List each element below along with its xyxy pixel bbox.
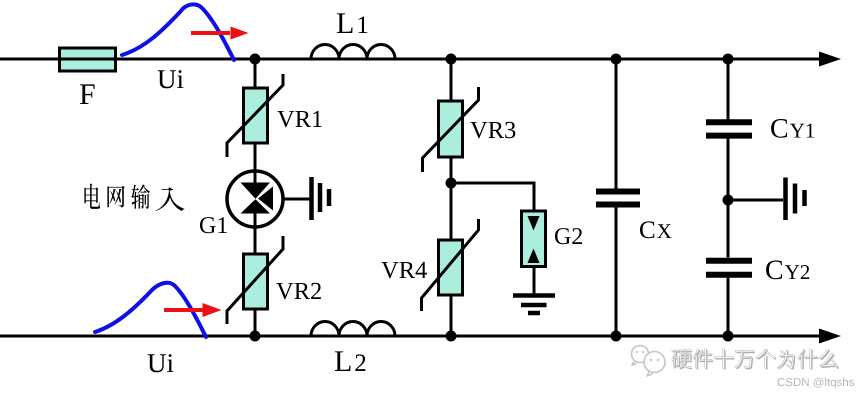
ground (G1, vertical bars)	[312, 177, 330, 220]
label CY2	[766, 261, 809, 280]
inductor L2	[311, 322, 395, 337]
label F	[80, 84, 95, 104]
varistor VR4	[422, 219, 479, 311]
label VR4	[381, 262, 427, 279]
wire top rail	[0, 58, 822, 61]
node CY1-CY2	[723, 195, 734, 206]
varistor VR3	[423, 87, 479, 172]
label 电网输入	[84, 184, 184, 212]
label Ui bottom	[148, 354, 174, 372]
label Ui top	[158, 70, 184, 88]
capacitor CY1	[706, 122, 752, 135]
wire VR3 to node	[450, 157, 453, 183]
wire CY column top	[727, 59, 730, 120]
wire CX bottom	[615, 208, 618, 337]
arrow surge top (red)	[191, 27, 249, 40]
gas discharge tube G2	[522, 211, 546, 267]
node top-CX	[611, 54, 622, 65]
wire bottom rail	[0, 335, 822, 338]
wire VR1 column top	[254, 59, 257, 88]
capacitor CX	[596, 192, 640, 205]
wire G2 to ground	[533, 267, 536, 296]
ground (G2, earth bars)	[513, 296, 555, 314]
watermark text 硬件十万个为什么	[672, 349, 839, 370]
node top-VR1	[250, 54, 261, 65]
watermark icon	[632, 346, 666, 377]
label G2	[555, 228, 582, 244]
arrow bottom rail	[819, 329, 841, 344]
node top-VR3	[446, 54, 457, 65]
node bottom-VR4	[446, 331, 457, 342]
node bottom-CX	[611, 331, 622, 342]
wire VR4 to bottom rail	[450, 295, 453, 336]
node bottom-CY	[723, 331, 734, 342]
arrow surge bottom (red)	[164, 303, 222, 317]
wire CY node to ground	[728, 199, 783, 202]
wire G1 to VR2	[254, 227, 257, 254]
node VR3-VR4	[446, 178, 457, 189]
label L1	[337, 13, 367, 33]
label VR2	[276, 283, 321, 300]
wire VR2 to bottom rail	[254, 309, 257, 336]
wire VR3 column top	[450, 59, 453, 101]
node top-CY	[723, 54, 734, 65]
fuse F	[60, 48, 116, 71]
capacitor CY2	[706, 261, 752, 275]
surge waveform top (blue)	[122, 4, 234, 60]
ground (CY, vertical bars)	[786, 178, 805, 221]
label L2	[335, 351, 366, 371]
node bottom-VR2	[250, 331, 261, 342]
label VR3	[470, 122, 515, 139]
wire node to VR4	[450, 183, 453, 240]
wire node to G2	[451, 183, 534, 211]
label VR1	[277, 111, 322, 128]
surge waveform bottom (blue)	[95, 283, 206, 337]
label G1	[200, 217, 227, 233]
wire CY1 to node	[727, 139, 730, 258]
label CX	[640, 221, 672, 238]
varistor VR1	[227, 74, 283, 157]
wire VR1 to G1	[254, 143, 257, 171]
varistor VR2	[227, 236, 283, 324]
arrow top rail	[819, 52, 841, 67]
inductor L1	[311, 45, 395, 60]
label CY1	[771, 119, 814, 138]
wire CX top	[615, 59, 618, 189]
watermark CSDN	[778, 378, 855, 389]
wire G1 to ground	[283, 198, 310, 201]
wire CY2 to bottom rail	[727, 278, 730, 336]
gas discharge tube G1	[227, 171, 283, 227]
